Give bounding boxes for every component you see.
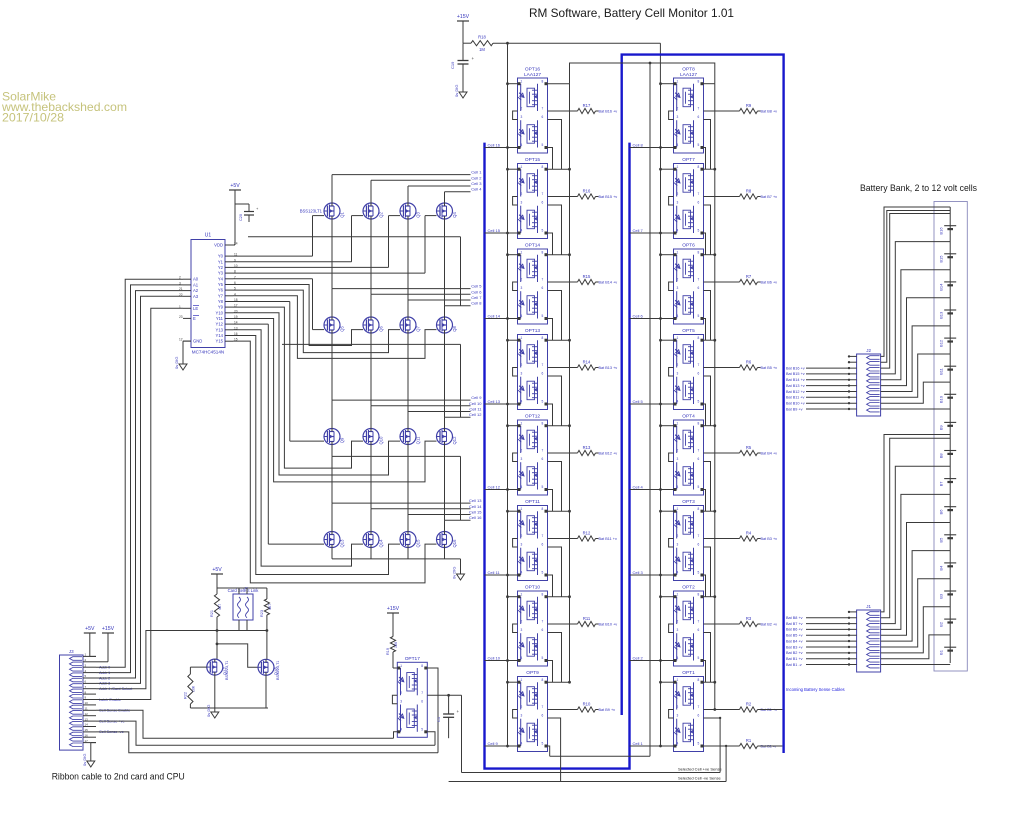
node Cell 16 bbox=[485, 143, 518, 149]
wire bbox=[704, 120, 711, 170]
wire pin8 chain left column bbox=[569, 84, 571, 683]
svg-text:1: 1 bbox=[677, 422, 679, 426]
wire pin1 chain left column bbox=[507, 81, 509, 748]
svg-text:BSS123,T1: BSS123,T1 bbox=[276, 661, 280, 680]
svg-text:8: 8 bbox=[542, 507, 544, 511]
svg-text:1: 1 bbox=[521, 165, 523, 169]
wire bbox=[513, 282, 518, 291]
wire bbox=[881, 214, 951, 369]
net label bbox=[596, 452, 618, 456]
svg-text:11: 11 bbox=[85, 707, 88, 711]
svg-text:Cell 6: Cell 6 bbox=[633, 314, 644, 319]
node Cell 9 bbox=[485, 741, 518, 747]
wire bbox=[371, 180, 471, 203]
svg-text:1: 1 bbox=[521, 678, 523, 682]
svg-text:Cell 4: Cell 4 bbox=[471, 187, 482, 192]
node Cell 5 bbox=[630, 399, 674, 405]
wire bbox=[548, 319, 553, 341]
svg-text:Cell 1: Cell 1 bbox=[471, 170, 482, 175]
wire bbox=[332, 455, 461, 457]
op-amp OPT17 LAA127 optocoupler bbox=[397, 656, 427, 738]
svg-text:3: 3 bbox=[677, 628, 679, 632]
wire bbox=[548, 339, 570, 341]
net label bbox=[596, 281, 618, 285]
optocoupler enclosure box (blue) bbox=[622, 55, 784, 753]
node junction bbox=[568, 681, 571, 684]
svg-text:R21: R21 bbox=[210, 610, 214, 617]
wire bbox=[548, 633, 562, 683]
svg-text:0v DIG: 0v DIG bbox=[206, 705, 211, 717]
wire bbox=[704, 745, 740, 747]
ground 0v DIG bbox=[174, 357, 187, 370]
svg-text:Y13: Y13 bbox=[216, 327, 224, 332]
wire bbox=[659, 510, 673, 513]
wire bbox=[445, 192, 471, 203]
wire bbox=[881, 242, 951, 374]
svg-text:8: 8 bbox=[542, 251, 544, 255]
svg-text:1K6: 1K6 bbox=[394, 642, 398, 648]
wire bbox=[407, 445, 409, 457]
svg-text:Q3: Q3 bbox=[416, 212, 421, 218]
net label bbox=[758, 195, 778, 199]
battery B10 bbox=[939, 394, 957, 403]
wire bbox=[506, 595, 517, 598]
wire bbox=[704, 110, 740, 112]
wire bbox=[669, 539, 674, 548]
wire bbox=[370, 456, 372, 508]
transistor Q12 bbox=[437, 429, 458, 445]
wire bbox=[704, 83, 715, 85]
connector J3 ribbon bbox=[60, 649, 84, 750]
node Cell 10 bbox=[485, 656, 518, 662]
svg-text:3: 3 bbox=[677, 201, 679, 205]
svg-text:Bat B15 +v: Bat B15 +v bbox=[786, 372, 805, 376]
svg-text:0v DIG: 0v DIG bbox=[82, 754, 87, 766]
svg-text:E: E bbox=[193, 316, 196, 321]
battery B5 bbox=[939, 535, 957, 543]
svg-text:Cell 2: Cell 2 bbox=[471, 175, 482, 180]
svg-text:Cell 3: Cell 3 bbox=[633, 570, 644, 575]
wire bbox=[548, 746, 550, 756]
svg-text:1: 1 bbox=[677, 678, 679, 682]
svg-text:1: 1 bbox=[521, 507, 523, 511]
wire bbox=[183, 341, 191, 360]
net Addr 3 bbox=[99, 682, 110, 686]
wire bbox=[233, 319, 437, 482]
svg-text:Bat B11 +v: Bat B11 +v bbox=[786, 396, 804, 400]
wire bbox=[704, 661, 706, 683]
wire bbox=[548, 148, 553, 170]
net label bbox=[758, 110, 778, 114]
svg-text:3: 3 bbox=[677, 543, 679, 547]
wire bbox=[331, 456, 333, 503]
op-amp OPT8 LAA127 optocoupler bbox=[674, 67, 704, 154]
svg-text:RM Software, Battery Cell Moni: RM Software, Battery Cell Monitor 1.01 bbox=[529, 6, 734, 20]
wire bbox=[550, 755, 650, 757]
wire bbox=[881, 211, 951, 363]
net Bat B2 +v bbox=[786, 651, 857, 655]
svg-text:OPT13: OPT13 bbox=[525, 328, 541, 334]
svg-text:Y12: Y12 bbox=[216, 322, 224, 327]
svg-text:OPT3: OPT3 bbox=[682, 499, 695, 505]
svg-text:3: 3 bbox=[521, 201, 523, 205]
wire bbox=[725, 745, 727, 782]
svg-text:1: 1 bbox=[521, 80, 523, 84]
wire bbox=[548, 623, 578, 625]
svg-text:5: 5 bbox=[421, 727, 423, 731]
svg-text:Cell 5: Cell 5 bbox=[471, 284, 482, 289]
svg-text:7: 7 bbox=[698, 705, 700, 709]
net Bat B15 +v bbox=[786, 372, 857, 376]
resistor R19 bbox=[386, 637, 398, 655]
wire bbox=[83, 663, 96, 667]
wire bbox=[881, 408, 951, 410]
wire bbox=[408, 300, 471, 317]
svg-text:Q15: Q15 bbox=[416, 539, 421, 548]
svg-text:7: 7 bbox=[542, 107, 544, 111]
wire Selected Cell -ve Sense bbox=[449, 781, 726, 783]
wire bbox=[704, 452, 740, 454]
svg-text:OPT1: OPT1 bbox=[682, 670, 695, 676]
net Bat B14 +v bbox=[786, 378, 857, 382]
wire pin8 chain crossover bbox=[570, 62, 715, 84]
svg-text:2: 2 bbox=[521, 534, 523, 538]
net Latch Enable bbox=[99, 698, 121, 702]
op-amp OPT12 LAA127 optocoupler bbox=[518, 414, 548, 496]
wire bbox=[881, 382, 951, 403]
svg-text:Bat B7 +v: Bat B7 +v bbox=[761, 195, 778, 199]
svg-text:12: 12 bbox=[85, 712, 89, 716]
wire bbox=[407, 237, 409, 300]
battery B4 bbox=[939, 563, 957, 571]
resistor R11 bbox=[578, 616, 596, 627]
power +15V bbox=[96, 626, 115, 662]
wire bbox=[548, 510, 570, 512]
svg-text:7: 7 bbox=[542, 534, 544, 538]
net Bat B6 +v bbox=[786, 628, 857, 632]
svg-text:23: 23 bbox=[179, 315, 183, 319]
wire bbox=[704, 681, 715, 683]
wire bbox=[659, 595, 673, 598]
wire bbox=[331, 219, 333, 237]
svg-text:Cell 10: Cell 10 bbox=[469, 401, 482, 406]
svg-text:MC74HC4514N: MC74HC4514N bbox=[192, 350, 224, 355]
svg-text:OPT8: OPT8 bbox=[682, 67, 695, 73]
svg-text:1: 1 bbox=[677, 80, 679, 84]
wire bbox=[704, 367, 740, 369]
svg-text:5: 5 bbox=[542, 400, 544, 404]
svg-text:2: 2 bbox=[400, 691, 402, 695]
svg-text:14: 14 bbox=[85, 723, 89, 727]
wire bbox=[548, 452, 578, 454]
svg-text:Cell 12: Cell 12 bbox=[469, 412, 482, 417]
svg-text:R5: R5 bbox=[746, 445, 752, 450]
wire bbox=[233, 216, 363, 262]
op-amp OPT15 LAA127 optocoupler bbox=[518, 157, 548, 239]
node Cell 14 bbox=[485, 314, 518, 320]
transistor Q13 bbox=[324, 532, 345, 548]
svg-text:Cell 12: Cell 12 bbox=[488, 485, 501, 490]
svg-text:8: 8 bbox=[698, 507, 700, 511]
svg-text:Battery Bank, 2 to 12 volt cel: Battery Bank, 2 to 12 volt cells bbox=[860, 183, 977, 193]
svg-text:5: 5 bbox=[542, 229, 544, 233]
node junction bbox=[713, 253, 716, 256]
op-amp OPT3 LAA127 optocoupler bbox=[674, 499, 704, 581]
node junction bbox=[568, 253, 571, 256]
node Cell 7 bbox=[630, 228, 674, 234]
wire bbox=[704, 168, 715, 170]
resistor R14 bbox=[578, 360, 596, 371]
node junction bbox=[713, 595, 716, 598]
battery B7 bbox=[939, 479, 957, 487]
wire bbox=[407, 219, 409, 237]
wire bbox=[704, 575, 706, 597]
svg-text:BSS123LT1: BSS123LT1 bbox=[300, 209, 323, 214]
wire bbox=[548, 254, 570, 256]
wire Cell Sense -ve run bbox=[96, 732, 438, 753]
wire Q18 gate bbox=[217, 644, 258, 667]
node Cell 6 bbox=[471, 289, 482, 294]
wire bbox=[408, 412, 471, 429]
svg-text:Cell 5: Cell 5 bbox=[633, 399, 644, 404]
svg-text:6: 6 bbox=[542, 115, 544, 119]
net label bbox=[596, 623, 618, 627]
wire bbox=[407, 548, 409, 559]
net label bbox=[758, 708, 778, 712]
svg-text:2: 2 bbox=[677, 363, 679, 367]
battery B14 bbox=[939, 282, 957, 291]
battery B9 bbox=[939, 422, 957, 430]
svg-text:Bat B6 +v: Bat B6 +v bbox=[761, 281, 778, 285]
ground 0v DIG bbox=[452, 567, 465, 580]
svg-text:B16: B16 bbox=[939, 227, 944, 235]
wire bbox=[83, 728, 96, 732]
svg-text:Bat B9 +v: Bat B9 +v bbox=[599, 708, 616, 712]
svg-text:Bat B12 +v: Bat B12 +v bbox=[786, 390, 805, 394]
svg-text:Bat B5 +v: Bat B5 +v bbox=[761, 366, 778, 370]
wire bbox=[669, 453, 674, 462]
battery bank enclosure bbox=[934, 202, 967, 672]
resistor R12 bbox=[578, 531, 596, 542]
svg-text:Cell 11: Cell 11 bbox=[488, 570, 501, 575]
wire battery chain bbox=[949, 207, 951, 663]
svg-text:R3: R3 bbox=[746, 616, 752, 621]
net Bat B12 +v bbox=[786, 390, 857, 394]
wire bbox=[758, 745, 783, 747]
svg-text:3: 3 bbox=[400, 699, 402, 703]
svg-text:Q16: Q16 bbox=[452, 539, 457, 548]
wire bbox=[370, 237, 372, 294]
op-amp OPT11 LAA127 optocoupler bbox=[518, 499, 548, 581]
svg-text:LAA127: LAA127 bbox=[680, 72, 697, 78]
svg-text:1: 1 bbox=[677, 507, 679, 511]
svg-text:6: 6 bbox=[698, 286, 700, 290]
svg-text:6: 6 bbox=[542, 714, 544, 718]
wire bbox=[370, 333, 372, 344]
svg-text:2: 2 bbox=[677, 107, 679, 111]
svg-text:Cell 15: Cell 15 bbox=[469, 510, 482, 515]
svg-text:10K: 10K bbox=[192, 685, 196, 692]
wire bbox=[444, 237, 446, 306]
svg-text:6: 6 bbox=[542, 457, 544, 461]
wire bbox=[444, 445, 446, 457]
svg-text:Cell 10: Cell 10 bbox=[488, 656, 501, 661]
svg-text:R14: R14 bbox=[583, 360, 591, 365]
wire bbox=[881, 326, 951, 392]
transistor Q7 bbox=[400, 317, 421, 333]
svg-text:0v DIG: 0v DIG bbox=[452, 567, 457, 579]
svg-text:LAA127: LAA127 bbox=[524, 72, 541, 78]
wire bbox=[513, 111, 518, 120]
wire bbox=[548, 425, 570, 427]
wire bbox=[881, 270, 951, 380]
wire bbox=[233, 216, 324, 257]
svg-text:OPT16: OPT16 bbox=[525, 67, 541, 73]
svg-text:7: 7 bbox=[421, 691, 423, 695]
svg-text:Cell 11: Cell 11 bbox=[469, 407, 482, 412]
svg-text:5: 5 bbox=[698, 742, 700, 746]
wire bbox=[233, 216, 437, 274]
svg-text:7: 7 bbox=[542, 363, 544, 367]
wire bbox=[513, 539, 518, 548]
wire bbox=[548, 110, 578, 112]
wire bbox=[233, 307, 363, 468]
svg-text:B8: B8 bbox=[939, 453, 944, 459]
svg-text:A2: A2 bbox=[193, 288, 199, 293]
incoming battery sense cables label bbox=[786, 687, 845, 692]
wire bbox=[332, 400, 471, 428]
svg-text:8: 8 bbox=[698, 422, 700, 426]
svg-text:6: 6 bbox=[698, 201, 700, 205]
svg-text:2: 2 bbox=[521, 192, 523, 196]
svg-text:OPT4: OPT4 bbox=[682, 414, 695, 420]
svg-text:5: 5 bbox=[698, 485, 700, 489]
svg-text:13: 13 bbox=[85, 717, 89, 721]
svg-text:6: 6 bbox=[542, 201, 544, 205]
svg-text:3: 3 bbox=[677, 115, 679, 119]
svg-text:2: 2 bbox=[677, 449, 679, 453]
transistor Q2 bbox=[363, 203, 384, 219]
resistor R1 bbox=[740, 738, 758, 749]
wire source rail bbox=[190, 675, 268, 708]
net label bbox=[758, 366, 778, 370]
battery B13 bbox=[939, 310, 957, 319]
svg-text:6: 6 bbox=[698, 372, 700, 376]
svg-text:LE: LE bbox=[193, 306, 198, 311]
battery B11 bbox=[939, 366, 957, 375]
svg-text:1: 1 bbox=[400, 664, 402, 668]
svg-text:Q6: Q6 bbox=[379, 326, 384, 332]
svg-text:Bat B4 +v: Bat B4 +v bbox=[786, 639, 803, 643]
wire bbox=[332, 175, 471, 203]
wire bbox=[704, 425, 715, 427]
op-amp OPT16 LAA127 optocoupler bbox=[518, 67, 548, 154]
wire bbox=[233, 313, 400, 475]
svg-text:6: 6 bbox=[698, 115, 700, 119]
svg-text:Bat B3 +v: Bat B3 +v bbox=[786, 645, 803, 649]
wire bbox=[506, 681, 517, 684]
svg-text:R9: R9 bbox=[746, 103, 752, 108]
svg-text:5: 5 bbox=[542, 485, 544, 489]
svg-text:7: 7 bbox=[698, 534, 700, 538]
svg-text:4: 4 bbox=[521, 742, 523, 746]
wire bbox=[513, 368, 518, 377]
node Cell 3 bbox=[630, 570, 674, 576]
svg-text:1: 1 bbox=[521, 422, 523, 426]
svg-text:Q7: Q7 bbox=[416, 326, 421, 332]
capacitor C1 bbox=[436, 709, 460, 738]
svg-text:B5: B5 bbox=[939, 537, 944, 543]
wire bbox=[83, 690, 96, 694]
wire bbox=[331, 333, 333, 344]
wire bbox=[460, 344, 462, 417]
wire bbox=[233, 330, 363, 566]
op-amp OPT14 LAA127 optocoupler bbox=[518, 243, 548, 325]
op-amp OPT6 LAA127 optocoupler bbox=[674, 243, 704, 325]
wire bbox=[83, 653, 96, 657]
svg-text:Bat B6 +v: Bat B6 +v bbox=[786, 628, 803, 632]
svg-text:1: 1 bbox=[677, 165, 679, 169]
svg-text:2: 2 bbox=[521, 107, 523, 111]
op-amp OPT2 LAA127 optocoupler bbox=[674, 585, 704, 667]
svg-text:Cell 7: Cell 7 bbox=[633, 228, 644, 233]
svg-text:4: 4 bbox=[677, 485, 679, 489]
wire bbox=[506, 510, 517, 513]
wire bbox=[83, 658, 96, 662]
wire bbox=[507, 43, 509, 81]
node junction bbox=[568, 595, 571, 598]
node junction bbox=[568, 168, 571, 171]
svg-text:Cell 3: Cell 3 bbox=[471, 181, 482, 186]
svg-text:8: 8 bbox=[542, 336, 544, 340]
svg-text:Cell 14: Cell 14 bbox=[469, 504, 482, 509]
svg-text:Bat B10 +v: Bat B10 +v bbox=[599, 623, 618, 627]
svg-text:5: 5 bbox=[542, 656, 544, 660]
wire bbox=[370, 219, 372, 237]
svg-text:Y8: Y8 bbox=[218, 299, 224, 304]
wire bbox=[548, 233, 553, 255]
svg-text:5: 5 bbox=[698, 400, 700, 404]
node Cell 13 bbox=[469, 498, 482, 503]
svg-text:Bat B14 +v: Bat B14 +v bbox=[786, 378, 805, 382]
battery B16 bbox=[939, 226, 957, 235]
resistor R15 bbox=[578, 274, 596, 285]
net Bat B8 +v bbox=[786, 616, 857, 620]
battery B15 bbox=[939, 254, 957, 263]
svg-text:5: 5 bbox=[698, 571, 700, 575]
wire bbox=[669, 282, 674, 291]
wire bbox=[704, 196, 740, 198]
transistor Q8 bbox=[437, 317, 458, 333]
svg-text:Incoming Battery Sense Cables: Incoming Battery Sense Cables bbox=[786, 687, 845, 692]
svg-text:Y14: Y14 bbox=[216, 333, 224, 338]
svg-text:8: 8 bbox=[542, 80, 544, 84]
svg-text:A0: A0 bbox=[193, 277, 199, 282]
wire bbox=[407, 456, 409, 514]
svg-text:R16: R16 bbox=[583, 189, 591, 194]
svg-text:B13: B13 bbox=[939, 311, 944, 319]
svg-text:B3: B3 bbox=[939, 593, 944, 599]
op-amp OPT5 LAA127 optocoupler bbox=[674, 328, 704, 410]
net Bat B7 +v bbox=[786, 622, 857, 626]
op-amp OPT1 LAA127 optocoupler bbox=[674, 670, 704, 752]
resistor R16 bbox=[578, 189, 596, 200]
wire bbox=[233, 324, 324, 544]
wire bbox=[332, 558, 461, 560]
svg-text:3: 3 bbox=[521, 372, 523, 376]
wire bbox=[233, 341, 437, 583]
svg-text:R15: R15 bbox=[583, 274, 591, 279]
